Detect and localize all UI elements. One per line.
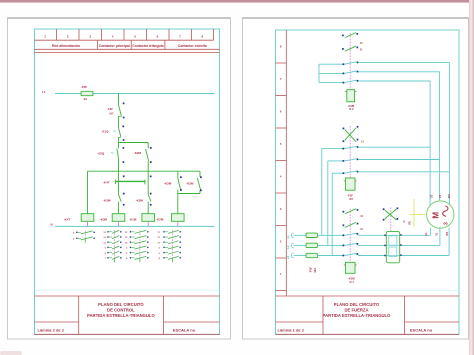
svg-text:PLANO DEL CIRCUITO: PLANO DEL CIRCUITO (334, 302, 380, 307)
svg-text:-K1M: -K1M (129, 217, 137, 221)
svg-text:/97: /97 (110, 111, 114, 115)
svg-text:-K2M: -K2M (164, 181, 172, 185)
svg-text:Contactor principal: Contactor principal (99, 44, 130, 48)
svg-text:Lámina 1 de 2: Lámina 1 de 2 (278, 327, 305, 332)
svg-text:ESCALA no: ESCALA no (410, 327, 433, 332)
svg-text:N: N (51, 223, 53, 227)
svg-text:Lámina 2 de 2: Lámina 2 de 2 (38, 327, 65, 332)
svg-text:M: M (432, 212, 441, 219)
svg-text:DE CONTROL: DE CONTROL (107, 307, 135, 312)
svg-text:Contactor estrella: Contactor estrella (178, 44, 207, 48)
svg-text:L1: L1 (42, 90, 46, 94)
svg-text:-F2F: -F2F (107, 107, 113, 111)
svg-text:ESCALA no: ESCALA no (173, 327, 196, 332)
svg-text:PARTIDA ESTRELLA-TRIANGULO: PARTIDA ESTRELLA-TRIANGULO (87, 313, 155, 318)
svg-text:PARTIDA ESTRELLA-TRIANGULO: PARTIDA ESTRELLA-TRIANGULO (323, 313, 391, 318)
svg-text:-K2M: -K2M (186, 181, 194, 185)
svg-text:3: 3 (444, 222, 450, 225)
svg-text:-S1Q: -S1Q (101, 130, 109, 134)
svg-text:-K2M: -K2M (136, 199, 144, 203)
svg-text:-F2F: -F2F (81, 85, 88, 89)
svg-text:-K4T: -K4T (103, 181, 110, 185)
svg-text:-K4T: -K4T (64, 217, 71, 221)
svg-text:Red alimentación: Red alimentación (52, 44, 80, 48)
svg-text:DE FUERZA: DE FUERZA (345, 307, 369, 312)
svg-text:-K2M: -K2M (156, 217, 164, 221)
svg-text:-K2M: -K2M (134, 151, 142, 155)
svg-text:PLANO DEL CIRCUITO: PLANO DEL CIRCUITO (98, 302, 144, 307)
svg-text:Contactor triángulo: Contactor triángulo (132, 44, 163, 48)
svg-text:16A: 16A (313, 268, 317, 273)
svg-text:-K3M: -K3M (103, 199, 111, 203)
svg-text:-F1F: -F1F (309, 267, 313, 273)
svg-text:-K3M: -K3M (100, 217, 108, 221)
svg-text:-S2Q: -S2Q (97, 151, 105, 155)
